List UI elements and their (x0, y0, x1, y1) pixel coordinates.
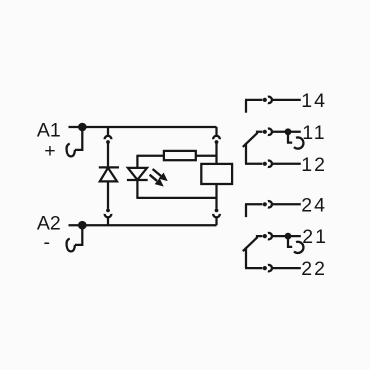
wire from A2 junction down to clamp (75, 225, 82, 245)
wire diode branch upper segment (107, 144, 109, 168)
plug socket (female) bottom of coil branch (213, 214, 220, 217)
changeover arm of contact 11 (with overshoot tick) (243, 132, 263, 147)
wire stub from coil-branch socket to A2 rail (215, 217, 217, 225)
plug socket (female) top of diode branch (105, 136, 112, 139)
contact 11: plug socket (female) (268, 129, 272, 135)
plug pin (male) top of diode branch (106, 140, 110, 144)
plug socket (female) bottom of diode branch (105, 214, 112, 217)
wire coil branch upper segment (215, 144, 217, 164)
LED light emission arrow 2 (150, 175, 163, 186)
svg-text:-: - (43, 232, 50, 254)
terminal clamp 11 (294, 137, 303, 148)
contact 14: plug socket (female) (268, 97, 272, 103)
svg-text:24: 24 (301, 194, 327, 216)
contact 12: plug pin (male) (263, 162, 267, 166)
LED light emission arrow 1 (153, 169, 167, 180)
svg-text:21: 21 (302, 226, 328, 248)
wire diode branch lower segment (107, 181, 109, 208)
wire LED branch bottom (136, 180, 138, 198)
svg-text:+: + (44, 140, 55, 162)
contact 24: plug pin (male) (263, 202, 267, 206)
plug socket (female) top of coil branch (213, 136, 220, 139)
junction dot at 11 (285, 128, 292, 135)
plug pin (male) top of coil branch (215, 140, 219, 144)
wire contact 21 to label (272, 235, 301, 237)
resistor R1 (164, 151, 196, 160)
terminal clamp A2 (67, 239, 75, 252)
svg-text:14: 14 (301, 90, 327, 112)
contact 22: plug socket (female) (268, 265, 272, 271)
svg-text:A1: A1 (37, 119, 61, 141)
wire pivot of arm down to contact 22 row (245, 247, 247, 268)
wire loop bottom (LED corner to coil branch) (136, 197, 216, 199)
wire resistor to coil branch (196, 155, 217, 157)
contact 12: wire from corner to plug pin (245, 163, 262, 165)
wire contact 24 to label (272, 203, 301, 205)
wire contact 11 to label (272, 131, 301, 133)
LED cathode bar (127, 179, 148, 181)
wire from 21 junction down to clamp (288, 236, 292, 247)
contact 14: fixed NO stub (245, 100, 247, 113)
LED (triangle, pointing down) (128, 168, 147, 180)
wire contact 14 to label (272, 99, 301, 101)
terminal clamp A1 (67, 144, 75, 157)
contact 24: plug socket (female) (268, 201, 272, 207)
wire loop top (LED corner to resistor) (136, 155, 164, 157)
contact 21: plug socket (female) (268, 233, 272, 239)
contact 14: plug pin (male) (263, 98, 267, 102)
plug pin (male) bottom of diode branch (106, 209, 110, 213)
junction dot at A2 (78, 221, 87, 230)
contact 11: plug pin (male) (263, 130, 267, 134)
wire stub from A1 rail corner into coil-branch plug socket (215, 127, 217, 136)
wire pivot of arm down to contact 12 row (245, 143, 247, 164)
junction dot at A1 (78, 123, 87, 132)
wire contact 22 to label (272, 267, 301, 269)
relay coil K1 (201, 164, 232, 184)
changeover arm of contact 21 (with overshoot tick) (243, 236, 263, 251)
terminal clamp 21 (294, 242, 303, 253)
contact 22: wire from corner to plug pin (245, 267, 262, 269)
svg-text:22: 22 (301, 258, 327, 280)
contact 22: plug pin (male) (263, 266, 267, 270)
contact 12: plug socket (female) (268, 161, 272, 167)
junction dot at 21 (285, 233, 292, 240)
svg-text:12: 12 (301, 154, 327, 176)
diode V1 (triangle, pointing up) (100, 168, 117, 182)
svg-text:11: 11 (302, 122, 326, 144)
wire contact 12 to label (272, 163, 301, 165)
wire stub from A1 rail into diode-branch plug socket (107, 127, 109, 136)
plug pin (male) bottom of coil branch (215, 209, 219, 213)
wire coil branch lower segment (215, 184, 217, 209)
wire from A1 junction down to clamp (75, 127, 82, 150)
diode V1 (cathode bar) (99, 166, 119, 168)
wire LED branch top (loop top-left corner down to LED) (136, 156, 138, 168)
contact 21: plug pin (male) (263, 234, 267, 238)
wire from 11 junction down to clamp (288, 132, 292, 143)
contact 24: fixed NO stub (245, 204, 247, 217)
wire A2 rail (A2 terminal to right branch corner) (69, 224, 217, 226)
wire A1 rail (A1 terminal to right branch corner) (69, 126, 217, 128)
contact 14: wire from stub to plug pin (245, 99, 262, 101)
wire stub from diode-branch socket to A2 rail (107, 217, 109, 225)
contact 24: wire from stub to plug pin (245, 203, 262, 205)
